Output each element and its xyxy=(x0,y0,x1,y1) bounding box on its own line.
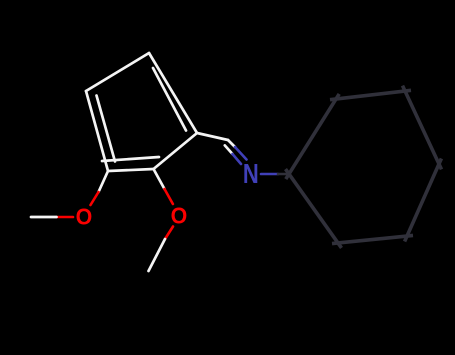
bond C1 to CH xyxy=(197,133,228,140)
wire inner double bond left xyxy=(97,96,116,162)
wire ring bond C3'-C4' xyxy=(403,86,442,170)
bond C3 to O1, carbon half (white) xyxy=(99,171,109,192)
wire ring edge upper-right C1-apex xyxy=(149,53,197,133)
methyl C bond (white) xyxy=(149,239,166,271)
wire inner double bond upper-right xyxy=(153,68,186,131)
bond C3 to O1, oxygen half (red) xyxy=(91,192,99,205)
wire ring bond C1'-C2' xyxy=(286,94,339,179)
bond C2 to O2, oxygen half (red) xyxy=(165,189,173,204)
wire ring edge left C4-C3 xyxy=(86,91,108,171)
methyl C bond (white) xyxy=(31,216,57,219)
imine C=N double bond, carbon half (white) xyxy=(225,140,235,154)
wire ring edge bottom C3-C2 xyxy=(108,169,154,171)
svg-text:O: O xyxy=(171,203,188,229)
wire ring bond C2'-C3' xyxy=(330,90,411,99)
wire ring edge right C2-C1 xyxy=(154,133,198,169)
cyclohexyl ring (dark, depth-cued) xyxy=(286,86,442,248)
wire inner double bond bottom xyxy=(102,157,159,161)
wire ring bond C5'-C6' xyxy=(332,235,413,243)
bond N to cyclohexyl, nitrogen half (blue) xyxy=(261,173,278,176)
bond O1 to methyl, oxygen part (red) xyxy=(57,216,74,219)
bond N to cyclohexyl, carbon half (dark) xyxy=(278,173,289,176)
wire ring edge apex to C4 xyxy=(86,53,149,91)
svg-text:O: O xyxy=(76,204,93,230)
wire ring bond C4'-C5' xyxy=(405,159,442,242)
svg-text:N: N xyxy=(243,159,259,190)
wire ring bond C6'-C1' xyxy=(286,169,342,248)
bond O2 to methyl, oxygen part (red) xyxy=(165,227,173,240)
bond C2 to O2, carbon half (white) xyxy=(154,169,165,189)
benzene ring (2,3-dimethoxyphenyl) xyxy=(86,53,197,171)
imine C=N double bond, nitrogen half (blue) xyxy=(233,147,247,164)
